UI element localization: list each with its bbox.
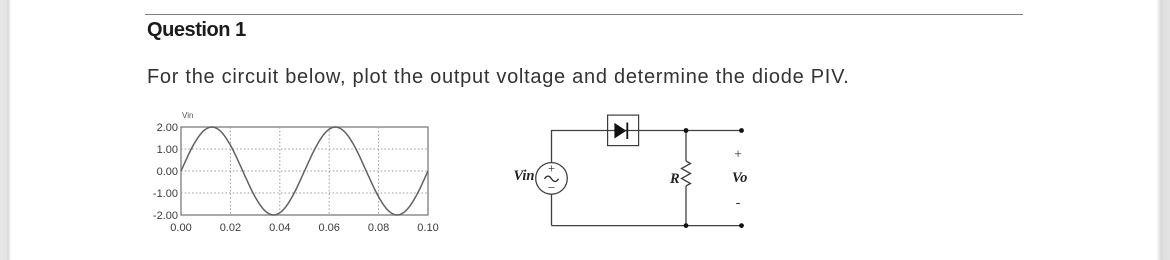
gridline x=0.06 [328,127,330,215]
output terminal dot - [739,223,744,228]
sine waveform Vin [181,127,428,215]
wire: bottom run from source to node B [552,225,687,227]
gridline x=0.08 [378,127,380,215]
gridline y=1.00 [181,148,428,150]
wire: resistor bottom to node B [685,186,687,226]
body text [147,66,850,89]
wire: top-left from source to diode box [552,131,608,163]
svg-text:R: R [669,171,680,187]
svg-text:−: − [548,180,555,195]
source AC tilde [545,176,559,181]
wire: node A to + output terminal [686,130,742,132]
svg-text:Vin: Vin [514,168,535,184]
top horizontal rule [145,14,1023,15]
gridline x=0.02 [229,127,231,215]
gridline y=-1.00 [181,192,428,194]
diode D1 cathode bar [626,123,628,140]
svg-text:-: - [736,195,741,210]
output terminal dot + [739,128,744,133]
resistor R zigzag [682,161,691,186]
node A junction dot [684,128,689,133]
heading: Question 1 [147,19,246,42]
wire: diode box to node A [639,130,686,132]
wire: node B to - output terminal [686,225,742,227]
diode D1 triangle (anode) [614,123,626,139]
right page-edge strip [1156,0,1170,260]
gridline y=0.00 [181,170,428,172]
wire: node A down to resistor top [685,131,687,162]
left page-edge strip [0,0,12,260]
svg-text:Vo: Vo [732,170,747,186]
wire: through diode box [608,130,639,132]
node B junction dot [684,223,689,228]
AC source Vin circle [536,163,568,195]
svg-text:+: + [734,147,742,162]
gridline x=0.04 [279,127,281,215]
wire: source bottom to bottom-left corner [551,194,553,225]
diode box outline [608,115,639,146]
svg-text:+: + [548,162,555,176]
chart plot border [181,127,428,215]
